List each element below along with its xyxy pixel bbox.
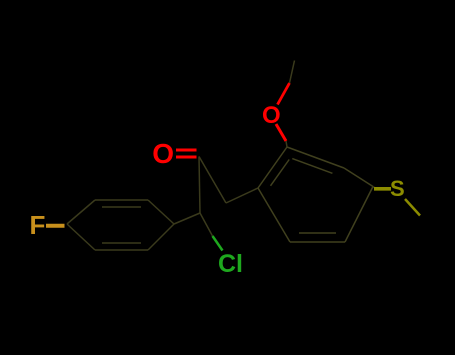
svg-text:Cl: Cl <box>218 250 243 278</box>
bond Z to carbonyl K <box>199 157 200 214</box>
bond Z-Cl chlorine half (green) <box>213 236 223 251</box>
right ring edge C2-C3 <box>287 147 344 168</box>
bond ring-S near-vertex segment <box>373 187 375 189</box>
right ring edge C3-C4 <box>344 168 373 187</box>
left ring inner double bond B-C <box>102 206 141 208</box>
double bond C=O bar upper <box>176 149 197 152</box>
svg-text:S: S <box>390 176 405 201</box>
left ring edge B-C <box>95 199 148 201</box>
right ring inner double bond C5-C6 <box>299 232 336 234</box>
bond C-F (gold) <box>46 224 65 228</box>
bond ring-S (bright olive) <box>374 187 391 191</box>
bond O-CH3 carbon half (dark) <box>290 61 295 84</box>
bond S-CH3 (olive) <box>405 199 420 216</box>
right ring inner double bond C1-C2 <box>271 160 290 186</box>
bond ring D to alpha C (Z) <box>174 213 200 224</box>
right ring edge C4-C5 <box>345 187 373 243</box>
right ring inner double bond C2-C3 <box>292 159 332 174</box>
left ring inner double bond E-F2 <box>102 242 141 244</box>
bond O-ring oxygen half (red) <box>276 124 286 141</box>
left ring edge D-E <box>148 224 174 250</box>
svg-text:O: O <box>152 138 174 169</box>
double bond C=O bar lower <box>176 156 197 159</box>
right ring edge C5-C6 <box>290 241 345 243</box>
bond K to CH2 (W) <box>199 157 226 204</box>
left ring edge E-F2 <box>95 249 148 251</box>
left ring edge C-D <box>148 200 174 224</box>
right ring edge C6-C1 <box>258 188 290 242</box>
bond O-CH3 oxygen half (red) <box>278 83 290 105</box>
left ring edge A-B <box>67 200 95 224</box>
svg-text:F: F <box>30 210 46 240</box>
bond O-ring carbon tail (dark) <box>286 141 287 147</box>
bond Z to Cl carbon half (dark) <box>200 213 213 236</box>
right ring edge C1-C2 <box>258 147 287 188</box>
left ring edge F2-A <box>67 224 95 250</box>
bond W to right ring C1 <box>226 188 258 203</box>
